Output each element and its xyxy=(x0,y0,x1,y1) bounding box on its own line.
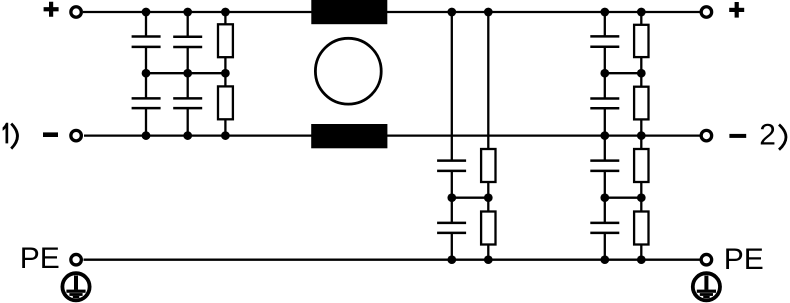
svg-text:PE: PE xyxy=(724,243,764,276)
svg-text:PE: PE xyxy=(20,242,60,275)
svg-text:2: 2 xyxy=(759,118,776,151)
